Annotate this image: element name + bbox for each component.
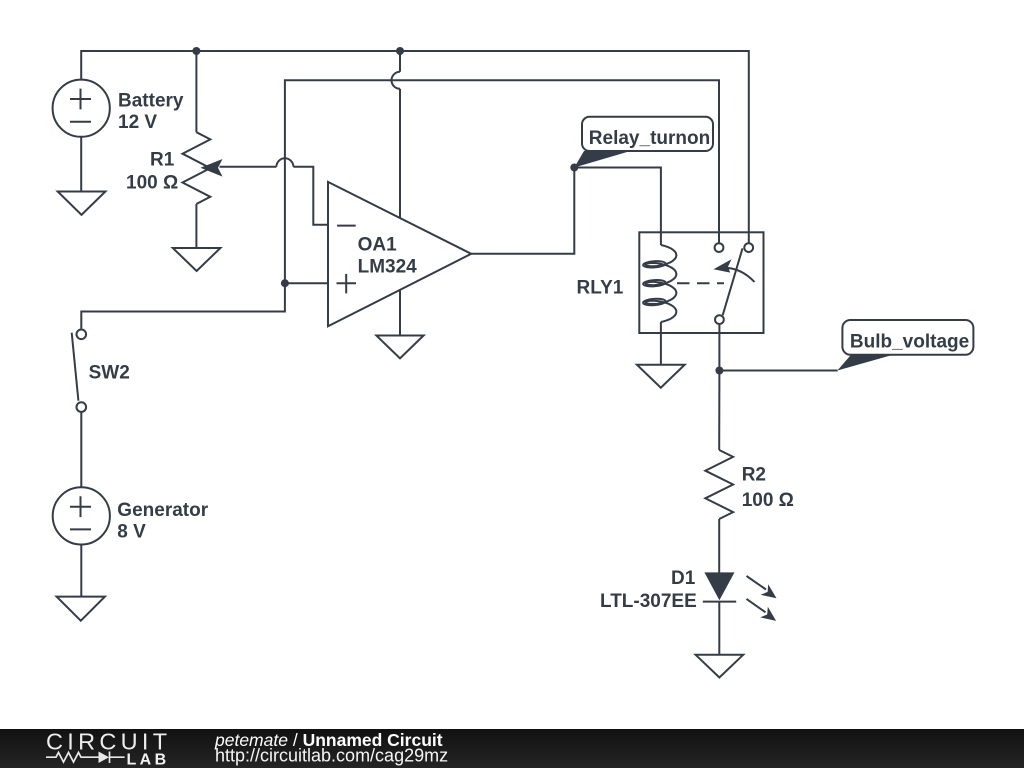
relay pin circle left [715,243,724,252]
node junction dot plus input branch [281,279,289,287]
switch SW2 lever [72,333,79,401]
svg-text:OA1: OA1 [358,235,398,256]
svg-text:RLY1: RLY1 [577,277,624,298]
node junction dot top rail at R1 [192,47,200,55]
svg-text:R2: R2 [742,464,766,485]
wire battery bottom to ground [80,137,82,192]
op-amp plus input symbol [337,274,357,294]
ground below generator [57,597,105,621]
relay pin circle bottom [715,315,724,324]
node junction dot bulb node [715,367,723,375]
LED light arrow 2 [747,599,766,612]
wire op-amp V+ supply from rail with hop over feedback wire [399,51,401,218]
svg-text:LAB: LAB [127,752,170,768]
svg-text:8 V: 8 V [117,521,146,542]
relay actuator arrow curve [721,268,755,282]
wire bulb node to flag [719,370,837,372]
wire relay bottom pin to R2 [718,324,720,450]
wire R2 to LED [718,519,720,573]
wire R1 wiper to op-amp minus input with hop over vertical [220,158,329,225]
wire hop arc on V+ line [392,72,401,89]
relay lever [723,248,743,315]
battery plus sign [70,89,91,110]
svg-text:http://circuitlab.com/cag29mz: http://circuitlab.com/cag29mz [215,746,448,766]
svg-text:12 V: 12 V [118,112,157,133]
generator V2 source circle [53,487,110,544]
svg-text:100 Ω: 100 Ω [126,173,178,194]
flag Relay_turnon pointer [574,151,630,168]
relay coil loops [643,260,666,268]
generator minus sign [70,528,91,530]
resistor R2 zigzag [705,450,733,519]
ground below R1 [173,248,221,271]
generator plus sign [70,496,91,517]
op-amp minus input symbol [337,225,356,227]
relay dashed actuator line [677,282,724,284]
node junction dot Relay_turnon [570,164,578,172]
ground below battery [58,192,106,215]
wire SW2 to generator [80,412,82,487]
svg-text:100 Ω: 100 Ω [742,490,794,511]
op-amp OA1 triangle [328,182,471,326]
wire op-amp V- to ground [399,290,401,336]
wire feedback from relay left pin to SW2 [81,80,719,328]
relay pin circle right [744,243,753,252]
svg-text:Battery: Battery [118,91,184,112]
flag Bulb_voltage pointer [837,355,893,371]
resistor R1 potentiometer zigzag [183,132,211,204]
R1 wiper arrowhead [201,159,223,177]
diode D1 cathode bar [703,601,736,603]
svg-text:Relay_turnon: Relay_turnon [589,128,710,149]
wire to op-amp plus input [285,282,328,284]
svg-text:LTL-307EE: LTL-307EE [600,591,697,612]
wire op-amp output to relay coil [471,168,661,254]
wire relay coil bottom to ground [660,322,662,365]
wire R1 bottom to ground [195,204,197,248]
logo squiggle resistor and diode [46,753,125,763]
svg-text:Bulb_voltage: Bulb_voltage [850,331,969,352]
wire top rail from battery to relay right pin [81,51,749,243]
switch SW2 pin circle bottom [77,402,87,412]
relay actuator arrowhead [714,259,732,272]
svg-text:SW2: SW2 [89,363,130,384]
wire generator to ground [80,544,82,597]
relay RLY1 box [639,232,763,333]
wire R1 top from rail [195,51,197,132]
node junction dot top rail at op-amp V+ [396,47,404,55]
relay coil [645,245,676,322]
svg-text:Generator: Generator [117,500,208,521]
wire LED to ground [718,602,720,655]
ground below op-amp [376,336,423,359]
diode D1 LED triangle [704,572,734,600]
svg-text:LM324: LM324 [358,257,418,278]
LED light arrow 1 [747,576,767,590]
flag Relay_turnon [582,117,713,151]
battery V1 source circle [53,80,110,137]
ground below LED [696,655,744,678]
switch SW2 pin circle top [77,330,87,340]
svg-text:CIRCUIT: CIRCUIT [46,729,171,755]
svg-text:R1: R1 [150,150,175,171]
svg-text:D1: D1 [671,568,696,589]
flag Bulb_voltage [842,320,973,355]
battery minus sign [70,121,91,123]
ground below relay coil [637,365,685,388]
